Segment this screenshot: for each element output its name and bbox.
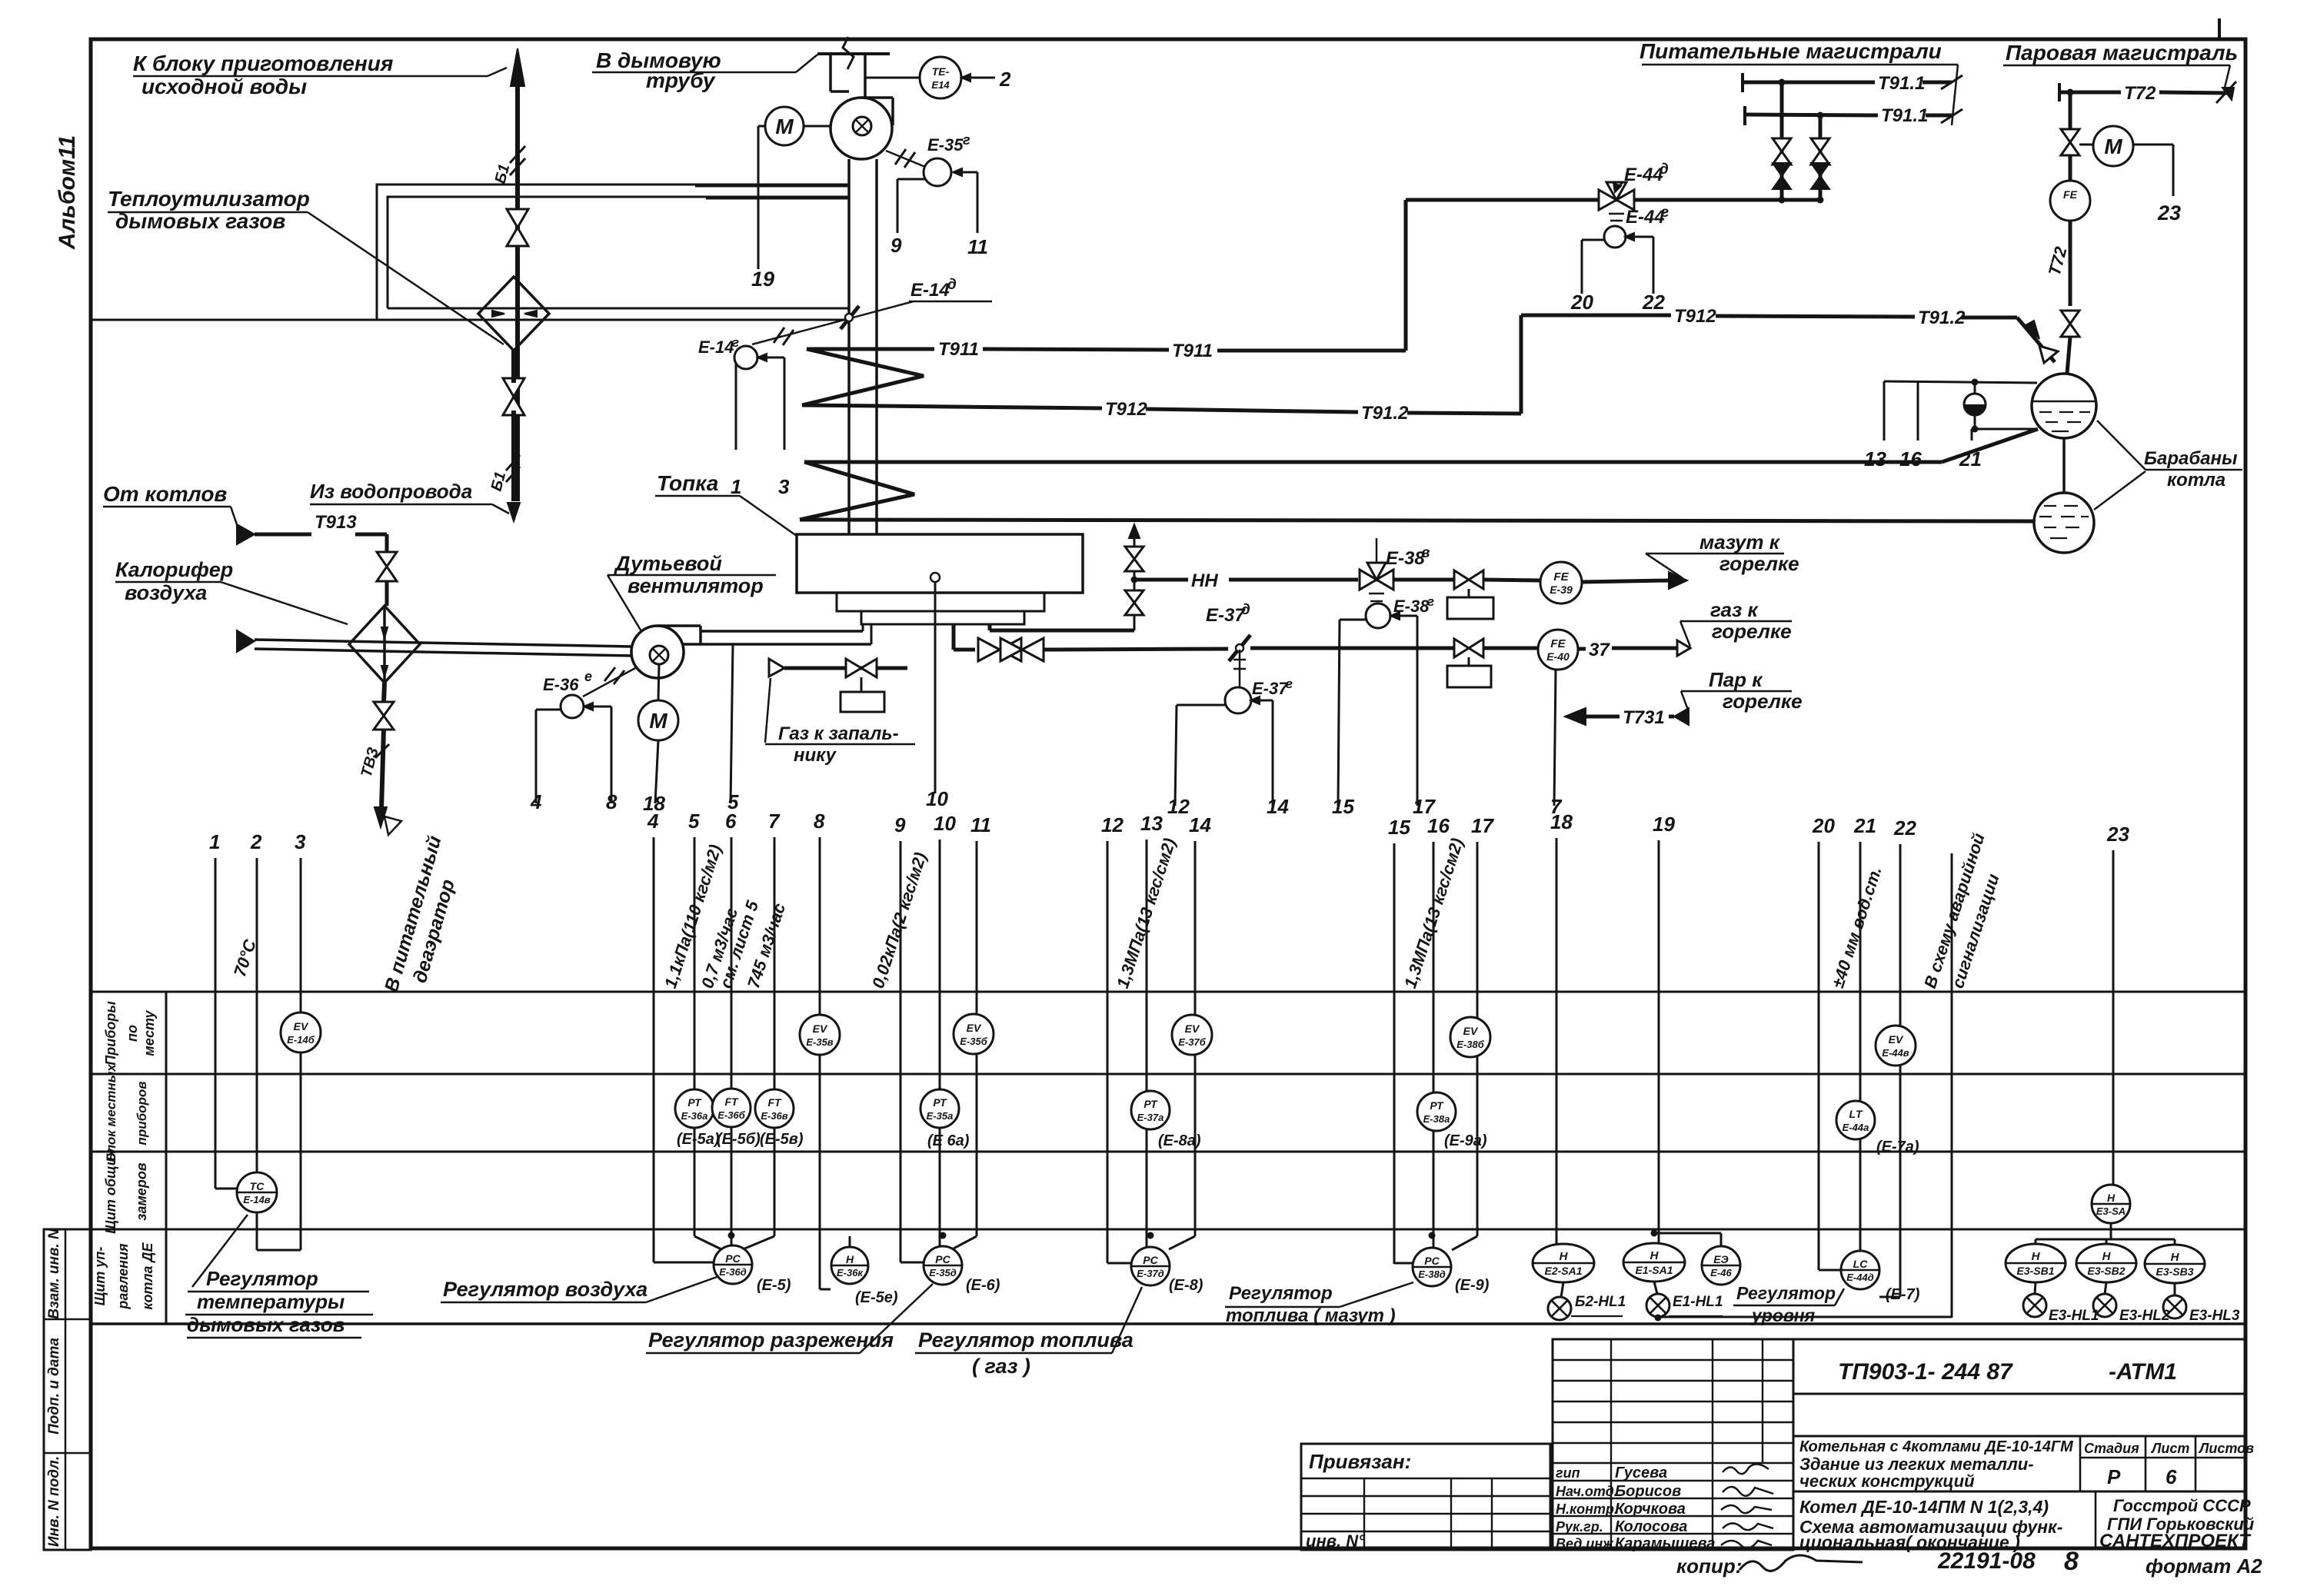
hook 7 xyxy=(1554,670,1556,806)
bend col17 xyxy=(1452,1236,1477,1250)
instrument ТС Е-14в xyxy=(237,1172,277,1212)
slash xyxy=(1941,75,1962,89)
line to lower drum xyxy=(800,520,2034,521)
svg-text:ЕЭ: ЕЭ xyxy=(1713,1253,1728,1265)
hook 12 xyxy=(1177,704,1225,707)
instrument FТ Е-36в xyxy=(755,1089,794,1128)
svg-text:Подп. и дата: Подп. и дата xyxy=(46,1338,62,1435)
svg-text:LТ: LТ xyxy=(1849,1108,1863,1120)
arrow to deaerator xyxy=(375,807,387,827)
slash Б1 lower xyxy=(506,455,520,470)
svg-text:(Е-9а): (Е-9а) xyxy=(1444,1132,1487,1149)
svg-text:Т912: Т912 xyxy=(1105,399,1147,420)
instrument ТЕ-Е14 xyxy=(920,57,961,98)
col8 to H xyxy=(819,1236,821,1289)
svg-text:Е-38д: Е-38д xyxy=(1418,1268,1446,1280)
svg-text:г: г xyxy=(1661,204,1669,221)
flue connection upper xyxy=(695,185,849,188)
svg-text:Листов: Листов xyxy=(2198,1441,2254,1456)
hook 19 xyxy=(758,125,765,128)
svg-text:Щит общих: Щит общих xyxy=(103,1149,118,1234)
float gauge xyxy=(1964,394,1986,415)
svg-text:(Е-5): (Е-5) xyxy=(757,1277,791,1294)
svg-text:вентилятор: вентилятор xyxy=(628,574,764,597)
leader fan to Е-35г xyxy=(886,151,925,167)
svg-text:22191-08: 22191-08 xyxy=(1937,1548,2036,1574)
svg-text:FТ: FТ xyxy=(724,1096,739,1108)
sensor Е-36е circle xyxy=(561,695,584,718)
wire TE to 2 xyxy=(961,77,995,79)
column line 7 xyxy=(774,837,776,1236)
arrow Т913 inlet xyxy=(237,524,255,544)
svg-text:8: 8 xyxy=(2064,1547,2079,1576)
table row line y1722 xyxy=(91,1322,2244,1325)
motor M blower xyxy=(638,700,678,740)
wire to M xyxy=(2079,144,2094,146)
column line 14 xyxy=(1194,841,1197,1236)
svg-text:Рук.гр.: Рук.гр. xyxy=(1556,1519,1603,1534)
svg-text:20: 20 xyxy=(1812,814,1835,837)
svg-text:Е3-SB2: Е3-SB2 xyxy=(2087,1265,2125,1277)
svg-text:Регулятор топлива: Регулятор топлива xyxy=(918,1328,1134,1352)
svg-text:РТ: РТ xyxy=(1144,1098,1158,1110)
svg-text:Е-36к: Е-36к xyxy=(837,1267,864,1278)
svg-text:23: 23 xyxy=(2157,201,2181,224)
wire col1 to ТС xyxy=(215,1188,237,1190)
svg-text:Н: Н xyxy=(2171,1251,2180,1264)
svg-text:(Е-6): (Е-6) xyxy=(966,1277,1000,1294)
svg-text:г: г xyxy=(1427,594,1434,609)
manifold valve filled xyxy=(1811,163,1829,189)
bend col7 xyxy=(743,1236,774,1249)
svg-text:14: 14 xyxy=(1189,813,1211,836)
svg-text:18: 18 xyxy=(1550,810,1573,833)
svg-text:Е-14б: Е-14б xyxy=(287,1034,315,1046)
L col12 xyxy=(1107,1236,1109,1263)
svg-text:Е-36д: Е-36д xyxy=(719,1266,747,1278)
svg-text:Т91.2: Т91.2 xyxy=(1918,308,1966,328)
switch Н Е3-SB3 xyxy=(2145,1245,2205,1283)
svg-text:Е3-SB1: Е3-SB1 xyxy=(2016,1265,2054,1277)
steam valve upper xyxy=(2061,129,2079,155)
svg-text:исходной воды: исходной воды xyxy=(141,75,307,98)
controller РС Е-37д xyxy=(1131,1247,1170,1285)
svg-text:Карамышева: Карамышева xyxy=(1615,1535,1715,1552)
svg-text:Из водопровода: Из водопровода xyxy=(310,480,472,503)
chimney duct right xyxy=(864,54,867,98)
svg-text:Колосова: Колосова xyxy=(1615,1518,1687,1535)
heat exchanger diamond (утилизатор) xyxy=(478,277,549,351)
motor M steam valve xyxy=(2093,126,2133,166)
svg-text:Е-35д: Е-35д xyxy=(929,1267,957,1278)
controller РС Е-35д xyxy=(924,1246,962,1285)
svg-text:Е3-HL3: Е3-HL3 xyxy=(2189,1308,2240,1324)
svg-text:Регулятор разрежения: Регулятор разрежения xyxy=(648,1328,894,1352)
svg-text:Е-44д: Е-44д xyxy=(1846,1272,1874,1283)
теплоутилизатор box outer xyxy=(377,185,849,320)
svg-text:Т72: Т72 xyxy=(2124,83,2156,104)
manifold line Т91.1 upper xyxy=(1743,81,1875,85)
column line 8 xyxy=(819,837,821,1289)
svg-text:22: 22 xyxy=(1642,291,1665,314)
svg-text:Котел ДЕ-10-14ПМ N 1(2,3,4): Котел ДЕ-10-14ПМ N 1(2,3,4) xyxy=(1799,1497,2049,1517)
svg-text:Н: Н xyxy=(1650,1249,1660,1262)
svg-text:Е-38а: Е-38а xyxy=(1423,1113,1450,1125)
svg-text:13: 13 xyxy=(1140,812,1163,835)
svg-text:Котельная с 4котлами ДЕ-10-14Г: Котельная с 4котлами ДЕ-10-14ГМ xyxy=(1799,1438,2074,1455)
svg-text:Е-36в: Е-36в xyxy=(761,1110,787,1122)
svg-text:4: 4 xyxy=(647,810,659,833)
svg-text:Е-36: Е-36 xyxy=(543,675,579,694)
svg-text:(Е 6а): (Е 6а) xyxy=(927,1132,970,1149)
svg-text:Щит уп-: Щит уп- xyxy=(92,1247,108,1306)
hook 17 xyxy=(1393,615,1417,617)
line Т911 xyxy=(807,347,934,351)
chimney cap xyxy=(817,52,890,55)
svg-text:19: 19 xyxy=(751,268,774,291)
valve gas pilot xyxy=(846,659,877,677)
air duct to furnace lower xyxy=(684,643,871,646)
svg-text:Т731: Т731 xyxy=(1623,707,1665,728)
leader to diamond xyxy=(308,212,504,344)
column line 2 xyxy=(256,858,258,1172)
instrument ЕЭ Е-46 xyxy=(1702,1246,1740,1285)
svg-text:Е3-SB3: Е3-SB3 xyxy=(2156,1265,2193,1278)
svg-text:д: д xyxy=(947,277,957,293)
svg-text:уровня: уровня xyxy=(1751,1305,1816,1325)
three-way valve Е-44д xyxy=(1599,182,1634,210)
column line 9 xyxy=(900,841,902,1262)
svg-text:5: 5 xyxy=(688,810,700,833)
vent circle on furnace xyxy=(930,573,940,582)
leader to РС Е-37д xyxy=(1112,1287,1142,1353)
diagonal into drum xyxy=(2017,318,2055,362)
column line 12 xyxy=(1107,841,1109,1263)
svg-text:РТ: РТ xyxy=(933,1096,947,1109)
flow arrow to drum xyxy=(2026,321,2039,339)
controller РС Е-38д xyxy=(1413,1248,1451,1286)
svg-text:Н.контр.: Н.контр. xyxy=(1556,1501,1618,1517)
svg-text:Е-35: Е-35 xyxy=(927,135,964,155)
switch Н Е2-SA1 xyxy=(1533,1244,1594,1282)
top tick mark xyxy=(2218,18,2221,39)
hook 18 xyxy=(655,740,658,803)
svg-text:инв. N°: инв. N° xyxy=(1306,1531,1365,1551)
svg-text:10: 10 xyxy=(926,787,948,810)
column line 17 xyxy=(1476,842,1479,1236)
column line 22 xyxy=(1899,844,1902,1297)
svg-text:(Е-5в): (Е-5в) xyxy=(760,1131,804,1148)
column line 1 xyxy=(215,858,217,1189)
svg-text:Р: Р xyxy=(2107,1465,2121,1488)
svg-text:Е-37б: Е-37б xyxy=(1178,1036,1206,1048)
column line 18 xyxy=(1556,838,1558,1245)
svg-text:Е3-SA: Е3-SA xyxy=(2096,1205,2126,1217)
table row line y1498 xyxy=(91,1151,2244,1153)
line to drum water side xyxy=(804,461,1942,464)
svg-text:1: 1 xyxy=(209,830,220,853)
flow arrow down 1 xyxy=(381,627,388,638)
positioner Е-38г circle xyxy=(1366,603,1390,628)
instrument EV Е-37б xyxy=(1172,1015,1212,1055)
flag triangle xyxy=(1674,708,1689,725)
svg-text:Регулятор: Регулятор xyxy=(206,1267,318,1290)
lamp Е3-HL2 xyxy=(2093,1294,2116,1317)
riser Т912 xyxy=(1520,315,1523,414)
svg-text:2: 2 xyxy=(999,68,1011,91)
теплоутилизатор box inner xyxy=(388,197,849,308)
svg-text:РТ: РТ xyxy=(1430,1099,1444,1112)
drum level taps 13 16 21 xyxy=(1884,381,2037,383)
chimney duct left xyxy=(829,54,832,91)
switch Н Е3-SB1 xyxy=(2006,1244,2066,1282)
lamp Б2-HL1 xyxy=(1548,1297,1571,1320)
hook 8 xyxy=(587,706,611,708)
hook 4 xyxy=(536,709,561,711)
bend col11 xyxy=(954,1236,977,1249)
lamp Е3-HL1 xyxy=(2023,1294,2046,1317)
svg-text:замеров: замеров xyxy=(134,1162,149,1221)
svg-text:Газ к запаль-: Газ к запаль- xyxy=(778,723,899,744)
svg-text:мазут к: мазут к xyxy=(1699,530,1781,554)
revision table xyxy=(1553,1339,1793,1550)
leader to РС Е-35д xyxy=(860,1284,933,1353)
column line 15 xyxy=(1393,843,1396,1264)
lower boiler drum xyxy=(2034,493,2094,553)
svg-text:ческих конструкций: ческих конструкций xyxy=(1799,1471,1975,1491)
flag В питательный деаэратор xyxy=(384,816,401,835)
L col22 xyxy=(1899,1236,1902,1297)
svg-text:воздуха: воздуха xyxy=(125,581,207,604)
alarm connection line xyxy=(1658,1316,1952,1318)
slash xyxy=(375,744,389,758)
svg-text:EV: EV xyxy=(813,1022,828,1035)
svg-text:EV: EV xyxy=(1889,1033,1904,1046)
svg-text:САНТЕХПРОЕКТ: САНТЕХПРОЕКТ xyxy=(2099,1531,2252,1551)
hook 5 xyxy=(731,644,733,803)
bus Е3 xyxy=(2036,1239,2175,1241)
sensor Е-14г circle xyxy=(734,346,757,369)
svg-text:НН: НН xyxy=(1191,570,1218,591)
hook 23 xyxy=(2133,144,2173,146)
svg-text:От котлов: От котлов xyxy=(103,482,227,506)
boiler coil zigzag 2 xyxy=(800,462,914,520)
svg-text:17: 17 xyxy=(1471,814,1494,837)
svg-text:12: 12 xyxy=(1101,813,1124,836)
hook ТС xyxy=(256,1212,258,1250)
bend col5 xyxy=(694,1236,721,1249)
valve on Б1 upper xyxy=(507,209,528,246)
svg-text:Е1-SA1: Е1-SA1 xyxy=(1635,1264,1673,1276)
svg-text:6: 6 xyxy=(725,810,737,833)
svg-text:Н: Н xyxy=(2107,1192,2116,1204)
svg-text:Е3-HL2: Е3-HL2 xyxy=(2119,1308,2170,1324)
hook 11 xyxy=(956,171,977,174)
arrow steam burner xyxy=(1565,708,1586,725)
steam valve lower xyxy=(2061,311,2079,337)
flow element FE Е-40а xyxy=(1538,630,1578,670)
pipe Б1 riser xyxy=(515,73,520,501)
svg-text:Е-37: Е-37 xyxy=(1206,605,1246,626)
svg-text:Е-37: Е-37 xyxy=(1252,679,1289,698)
svg-text:Регулятор: Регулятор xyxy=(1229,1283,1333,1304)
svg-text:РС: РС xyxy=(1143,1254,1158,1266)
svg-text:нику: нику xyxy=(794,745,837,766)
svg-text:16: 16 xyxy=(1427,814,1450,837)
L col20 xyxy=(1818,1236,1820,1270)
svg-text:7: 7 xyxy=(768,810,781,833)
vent arrow xyxy=(1129,524,1140,538)
svg-text:по: по xyxy=(125,1025,140,1042)
air duct upper xyxy=(255,640,632,647)
svg-text:К блоку приготовления: К блоку приготовления xyxy=(133,52,393,75)
table header divider xyxy=(165,992,168,1324)
svg-text:ТП903-1- 244 87: ТП903-1- 244 87 xyxy=(1838,1359,2013,1385)
svg-text:37: 37 xyxy=(1589,640,1610,660)
svg-text:месту: месту xyxy=(141,1009,157,1056)
air duct to furnace upper xyxy=(701,630,863,633)
svg-text:дымовых газов: дымовых газов xyxy=(187,1313,345,1336)
double slash on leader xyxy=(774,328,784,343)
instrument EV Е-35в xyxy=(800,1015,840,1055)
switch Н Е3-SA xyxy=(2092,1185,2130,1223)
leader to lower drum xyxy=(2094,471,2146,510)
mazut valve lower xyxy=(1125,590,1144,615)
svg-text:Е-44: Е-44 xyxy=(1626,207,1665,228)
hook 22 xyxy=(1628,236,1653,238)
svg-text:в: в xyxy=(1421,545,1430,561)
duct down to boiler xyxy=(847,159,851,534)
double slash xyxy=(895,149,906,165)
svg-text:г: г xyxy=(1286,677,1293,691)
svg-text:котла: котла xyxy=(2167,470,2225,490)
svg-text:2: 2 xyxy=(250,830,262,853)
svg-text:FE: FE xyxy=(1550,637,1566,650)
svg-text:М: М xyxy=(775,115,794,138)
svg-text:(Е-5а): (Е-5а) xyxy=(677,1131,720,1148)
pipe gas to pilot xyxy=(784,667,907,670)
check valve triangle xyxy=(2039,346,2058,363)
svg-text:Т911: Т911 xyxy=(938,339,979,360)
svg-text:Е-14: Е-14 xyxy=(698,337,734,357)
column line 3 xyxy=(300,858,302,1250)
sensor Е-35г circle xyxy=(924,158,951,186)
svg-text:Т911: Т911 xyxy=(1172,341,1213,361)
signatures squiggles xyxy=(1723,1464,1769,1474)
leader to ТС xyxy=(192,1215,248,1287)
svg-text:Инв. N подл.: Инв. N подл. xyxy=(46,1456,62,1547)
motor M of exhauster xyxy=(765,107,804,145)
Привязан box xyxy=(1301,1444,1550,1550)
svg-text:Паровая магистраль: Паровая магистраль xyxy=(2006,41,2238,65)
alarm signal line xyxy=(1951,853,1953,1318)
manifold valve filled xyxy=(1773,163,1791,189)
bend col14 xyxy=(1169,1236,1195,1249)
svg-text:г: г xyxy=(963,132,970,148)
line Т913 xyxy=(255,533,311,537)
air duct lower xyxy=(255,649,634,656)
wire duct to TE xyxy=(865,77,920,79)
svg-text:Взам. инв. N: Взам. инв. N xyxy=(46,1228,62,1319)
column line 21 xyxy=(1859,842,1862,1252)
svg-text:8: 8 xyxy=(606,790,618,813)
column line 10 xyxy=(939,840,941,1246)
table row line y1599 xyxy=(91,1229,2244,1231)
svg-text:11: 11 xyxy=(967,235,988,258)
svg-text:6: 6 xyxy=(2166,1465,2177,1488)
box bottom inner xyxy=(388,308,849,310)
svg-text:Е-44в: Е-44в xyxy=(1882,1047,1909,1059)
svg-text:LC: LC xyxy=(1853,1258,1869,1270)
svg-text:формат А2: формат А2 xyxy=(2146,1554,2262,1578)
leader to РС Е-36д xyxy=(646,1276,719,1302)
column line 4 xyxy=(653,837,655,1262)
pipe ТВЗ xyxy=(384,683,384,703)
svg-text:EV: EV xyxy=(1185,1022,1200,1035)
wire M to fan xyxy=(804,125,831,128)
left GOST strip xyxy=(44,1229,91,1550)
column line 5 xyxy=(694,837,696,1236)
svg-text:Н: Н xyxy=(846,1253,854,1265)
svg-text:Нач.отд.: Нач.отд. xyxy=(1556,1484,1618,1499)
flow element FE Е-39а xyxy=(1540,562,1582,603)
line НН xyxy=(1134,578,1188,582)
valve on ТВЗ xyxy=(374,702,394,730)
hook 20 xyxy=(1582,239,1604,241)
damper Е-37д xyxy=(1229,635,1250,661)
svg-text:EV: EV xyxy=(294,1020,309,1032)
svg-text:-АТМ1: -АТМ1 xyxy=(2109,1359,2177,1385)
svg-text:Е-46: Е-46 xyxy=(1710,1267,1732,1278)
leader to upper drum xyxy=(2097,421,2146,470)
svg-text:Гусева: Гусева xyxy=(1615,1465,1667,1481)
hook 9 xyxy=(897,178,924,181)
column line 11 xyxy=(976,841,978,1236)
flag Газ к запальнику xyxy=(769,659,784,677)
svg-text:Стадия: Стадия xyxy=(2084,1441,2139,1456)
svg-text:Привязан:: Привязан: xyxy=(1309,1450,1411,1473)
svg-text:21: 21 xyxy=(1959,447,1982,470)
svg-text:20: 20 xyxy=(1570,291,1593,314)
svg-text:Е-14в: Е-14в xyxy=(243,1194,270,1205)
line Т731 xyxy=(1586,715,1620,719)
double shutoff valve gas xyxy=(978,638,1044,661)
positioner Е-44г circle xyxy=(1604,226,1626,248)
svg-text:14: 14 xyxy=(1267,795,1289,818)
svg-text:Е-36а: Е-36а xyxy=(681,1110,708,1122)
instrument EV Е-38б xyxy=(1450,1017,1490,1057)
instrument FТ Е-36б xyxy=(712,1089,751,1127)
line Т912 xyxy=(802,405,1102,408)
svg-text:газ к: газ к xyxy=(1710,598,1759,621)
svg-text:горелке: горелке xyxy=(1723,690,1803,713)
table row line y1397 xyxy=(91,1073,2244,1076)
svg-text:топлива ( мазут ): топлива ( мазут ) xyxy=(1226,1305,1396,1326)
svg-text:Е1-HL1: Е1-HL1 xyxy=(1673,1294,1723,1310)
svg-text:Е-36б: Е-36б xyxy=(717,1109,745,1121)
steam drop pipe xyxy=(2069,92,2072,129)
svg-text:температуры: температуры xyxy=(197,1290,345,1313)
upper boiler drum xyxy=(2032,374,2096,438)
svg-text:Т91.1: Т91.1 xyxy=(1878,73,1925,94)
hook 1 xyxy=(735,363,737,450)
svg-text:(Е-5б): (Е-5б) xyxy=(717,1131,761,1148)
svg-text:Т913: Т913 xyxy=(315,512,357,533)
svg-text:д: д xyxy=(1660,161,1669,178)
slash Б1 xyxy=(510,146,525,163)
svg-text:4: 4 xyxy=(530,790,542,813)
svg-text:Блок местных: Блок местных xyxy=(104,1063,118,1162)
